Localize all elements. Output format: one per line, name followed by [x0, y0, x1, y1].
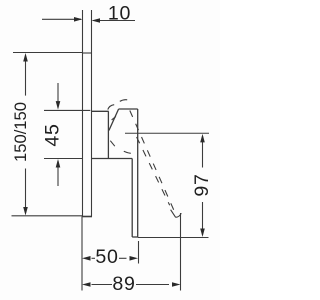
dimension 150/150	[11, 53, 83, 216]
lever tip dashed	[176, 213, 182, 217]
dashed swing arc upper	[108, 105, 114, 110]
lever cap (closed position)	[109, 109, 138, 237]
dimension 89	[82, 273, 181, 295]
dimension 45	[42, 83, 91, 186]
extension line lever tip	[180, 213, 182, 291]
lever open position dashed lower edge	[137, 137, 170, 205]
svg-text:97: 97	[191, 173, 213, 196]
svg-text:150/150: 150/150	[11, 102, 30, 162]
extension line 50	[138, 241, 140, 264]
dashed swing arc lower	[112, 116, 116, 120]
svg-text:45: 45	[42, 123, 64, 146]
centerline	[125, 132, 209, 134]
svg-text:10: 10	[108, 3, 131, 25]
wall plate 150/150	[82, 10, 92, 217]
svg-text:50: 50	[95, 246, 118, 268]
svg-text:89: 89	[112, 273, 135, 295]
valve body sleeve	[92, 111, 138, 237]
wire extension line below plate (wall face reference)	[81, 217, 83, 291]
dimension 97	[138, 134, 213, 238]
dimension 10	[42, 3, 135, 25]
lever open position dashed upper edge	[130, 111, 174, 211]
dimension 50	[82, 246, 138, 268]
